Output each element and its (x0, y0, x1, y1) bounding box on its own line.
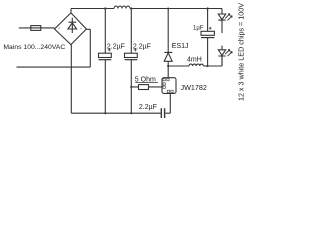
svg-text:2.2µF: 2.2µF (107, 44, 125, 51)
svg-text:Mains 100...240VAC: Mains 100...240VAC (3, 44, 65, 51)
svg-text:JW1782: JW1782 (181, 83, 207, 92)
svg-text:5 Ohm: 5 Ohm (135, 77, 156, 84)
svg-text:ES1J: ES1J (172, 43, 189, 50)
svg-text:2.2µF: 2.2µF (139, 104, 157, 111)
svg-text:12 x 3 white LED chips = 100V: 12 x 3 white LED chips = 100V (237, 3, 246, 101)
svg-text:4mH: 4mH (187, 57, 202, 64)
svg-text:2.2µF: 2.2µF (133, 44, 151, 51)
svg-text:1µF: 1µF (193, 26, 204, 32)
